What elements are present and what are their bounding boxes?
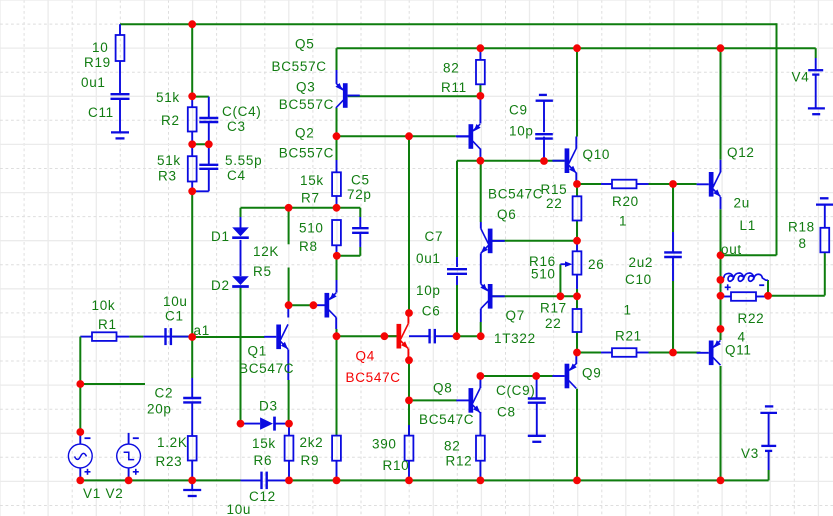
svg-text:C3: C3	[227, 119, 246, 134]
svg-text:20p: 20p	[147, 401, 172, 416]
svg-text:R2: R2	[161, 113, 180, 128]
svg-text:R17: R17	[540, 300, 567, 315]
svg-text:72p: 72p	[347, 187, 372, 202]
svg-text:R7: R7	[301, 190, 320, 205]
svg-text:15k: 15k	[252, 436, 276, 451]
svg-text:out: out	[721, 242, 742, 257]
svg-text:51k: 51k	[157, 153, 181, 168]
svg-text:C7: C7	[425, 229, 444, 244]
svg-text:10k: 10k	[92, 298, 116, 313]
svg-text:C6: C6	[422, 303, 441, 318]
svg-text:R5: R5	[253, 264, 272, 279]
svg-text:510: 510	[299, 220, 324, 235]
svg-text:1T322: 1T322	[494, 331, 536, 346]
svg-text:82: 82	[444, 438, 460, 453]
svg-text:0u1: 0u1	[81, 75, 106, 90]
svg-text:10p: 10p	[509, 123, 534, 138]
svg-text:BC557C: BC557C	[279, 145, 334, 160]
svg-text:BC547C: BC547C	[346, 370, 401, 385]
svg-text:Q10: Q10	[583, 147, 611, 162]
svg-text:C11: C11	[88, 105, 114, 120]
svg-text:Q7: Q7	[506, 308, 525, 323]
svg-text:510: 510	[531, 266, 556, 281]
svg-text:R19: R19	[84, 55, 111, 70]
svg-text:Q2: Q2	[295, 125, 314, 140]
svg-text:Q4: Q4	[356, 348, 375, 363]
svg-text:10u: 10u	[227, 502, 252, 516]
svg-text:a1: a1	[194, 323, 210, 338]
svg-text:BC547C: BC547C	[488, 186, 543, 201]
svg-text:C12: C12	[249, 489, 276, 504]
svg-text:51k: 51k	[156, 90, 180, 105]
svg-text:15k: 15k	[300, 173, 324, 188]
svg-text:Q8: Q8	[433, 380, 452, 395]
svg-text:C1: C1	[165, 308, 184, 323]
svg-text:R22: R22	[738, 311, 765, 326]
svg-text:D2: D2	[211, 278, 230, 293]
svg-text:R15: R15	[541, 182, 568, 197]
svg-text:C8: C8	[497, 404, 516, 419]
svg-text:1: 1	[624, 302, 632, 317]
svg-text:C4: C4	[227, 168, 246, 183]
svg-text:R18: R18	[788, 219, 815, 234]
svg-text:D1: D1	[211, 229, 230, 244]
svg-text:BC547C: BC547C	[239, 361, 294, 376]
svg-text:5.55p: 5.55p	[225, 153, 262, 168]
svg-text:R21: R21	[615, 328, 642, 343]
svg-text:R20: R20	[612, 194, 639, 209]
svg-text:22: 22	[545, 316, 561, 331]
svg-text:R10: R10	[383, 458, 410, 473]
svg-text:D3: D3	[259, 398, 278, 413]
svg-text:Q3: Q3	[296, 79, 315, 94]
svg-text:8: 8	[799, 236, 807, 251]
svg-text:82: 82	[443, 60, 459, 75]
svg-text:V1: V1	[83, 486, 101, 501]
svg-text:10: 10	[92, 40, 108, 55]
svg-text:Q11: Q11	[725, 342, 752, 357]
svg-text:10p: 10p	[416, 283, 441, 298]
svg-text:1.2K: 1.2K	[157, 435, 188, 450]
svg-text:Q5: Q5	[295, 36, 314, 51]
svg-text:0u1: 0u1	[416, 251, 441, 266]
svg-text:2u: 2u	[734, 195, 750, 210]
svg-text:1: 1	[619, 213, 627, 228]
svg-text:Q1: Q1	[248, 343, 267, 358]
svg-text:R8: R8	[299, 239, 318, 254]
svg-text:R1: R1	[98, 317, 117, 332]
svg-text:2u2: 2u2	[629, 255, 654, 270]
svg-text:390: 390	[372, 436, 397, 451]
svg-text:R9: R9	[301, 453, 320, 468]
svg-text:C(C4): C(C4)	[222, 104, 262, 119]
svg-text:BC557C: BC557C	[272, 59, 327, 74]
svg-text:V2: V2	[106, 486, 124, 501]
svg-text:Q6: Q6	[497, 207, 516, 222]
svg-text:C2: C2	[155, 385, 174, 400]
svg-text:2k2: 2k2	[300, 435, 324, 450]
svg-text:Q9: Q9	[582, 365, 601, 380]
svg-text:C5: C5	[351, 172, 370, 187]
svg-text:C9: C9	[509, 102, 528, 117]
svg-text:BC547C: BC547C	[419, 412, 474, 427]
svg-text:R3: R3	[158, 168, 177, 183]
svg-text:R11: R11	[441, 80, 467, 95]
svg-text:Q12: Q12	[727, 145, 755, 160]
svg-text:10u: 10u	[163, 294, 188, 309]
svg-text:R6: R6	[254, 453, 273, 468]
svg-text:C(C9): C(C9)	[496, 383, 536, 398]
svg-text:R23: R23	[156, 454, 183, 469]
svg-text:L1: L1	[740, 218, 756, 233]
svg-text:BC557C: BC557C	[279, 97, 334, 112]
svg-text:26: 26	[588, 257, 604, 272]
svg-text:V4: V4	[792, 69, 810, 84]
svg-text:C10: C10	[625, 272, 652, 287]
svg-text:22: 22	[546, 196, 562, 211]
svg-text:V3: V3	[741, 446, 759, 461]
svg-text:R12: R12	[446, 453, 473, 468]
svg-text:12K: 12K	[253, 244, 279, 259]
